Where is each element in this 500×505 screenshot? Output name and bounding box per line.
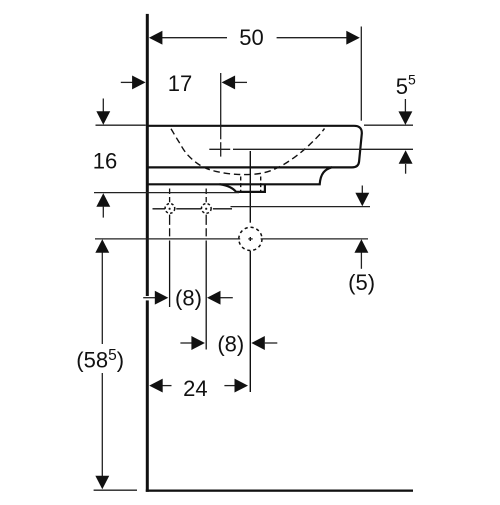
svg-text:17: 17 (168, 71, 192, 96)
svg-text:(8): (8) (175, 286, 202, 311)
svg-text:16: 16 (93, 149, 117, 174)
svg-text:50: 50 (239, 25, 263, 50)
svg-text:(585): (585) (76, 347, 124, 373)
svg-text:24: 24 (183, 376, 207, 401)
svg-text:(5): (5) (348, 270, 375, 295)
svg-text:(8): (8) (217, 332, 244, 357)
